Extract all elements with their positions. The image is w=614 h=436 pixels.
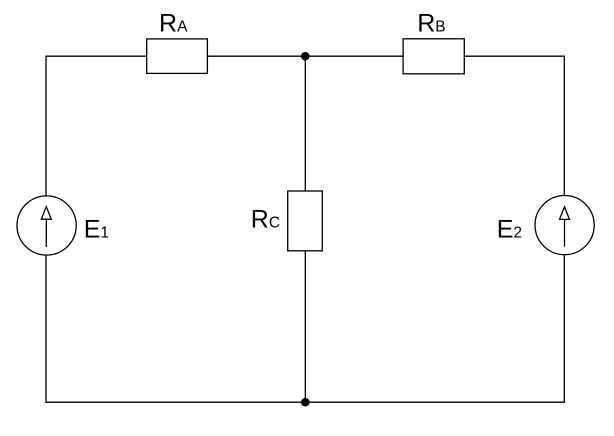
wire node B to bottom-right corner: [305, 255, 564, 403]
wire RB to top-right corner: [464, 56, 564, 195]
wire RA to node A: [207, 55, 305, 57]
svg-text:RC: RC: [251, 206, 280, 234]
svg-text:RB: RB: [417, 9, 445, 37]
source E1: [17, 196, 76, 255]
node B junction dot: [301, 398, 310, 407]
resistor RC: [288, 191, 323, 251]
resistor RB: [403, 39, 464, 74]
svg-text:RA: RA: [159, 9, 188, 37]
svg-text:E1: E1: [84, 215, 109, 243]
wire top-left segment: [46, 56, 147, 196]
source E2: [535, 196, 594, 255]
node A junction dot: [301, 52, 310, 61]
wire node A down to RC: [304, 56, 306, 191]
resistor RA: [147, 39, 208, 74]
wire RC down to node B: [304, 251, 306, 402]
wire E1 bottom to bottom-left corner: [46, 255, 305, 402]
wire node A to RB: [305, 55, 403, 57]
svg-text:E2: E2: [497, 215, 522, 243]
